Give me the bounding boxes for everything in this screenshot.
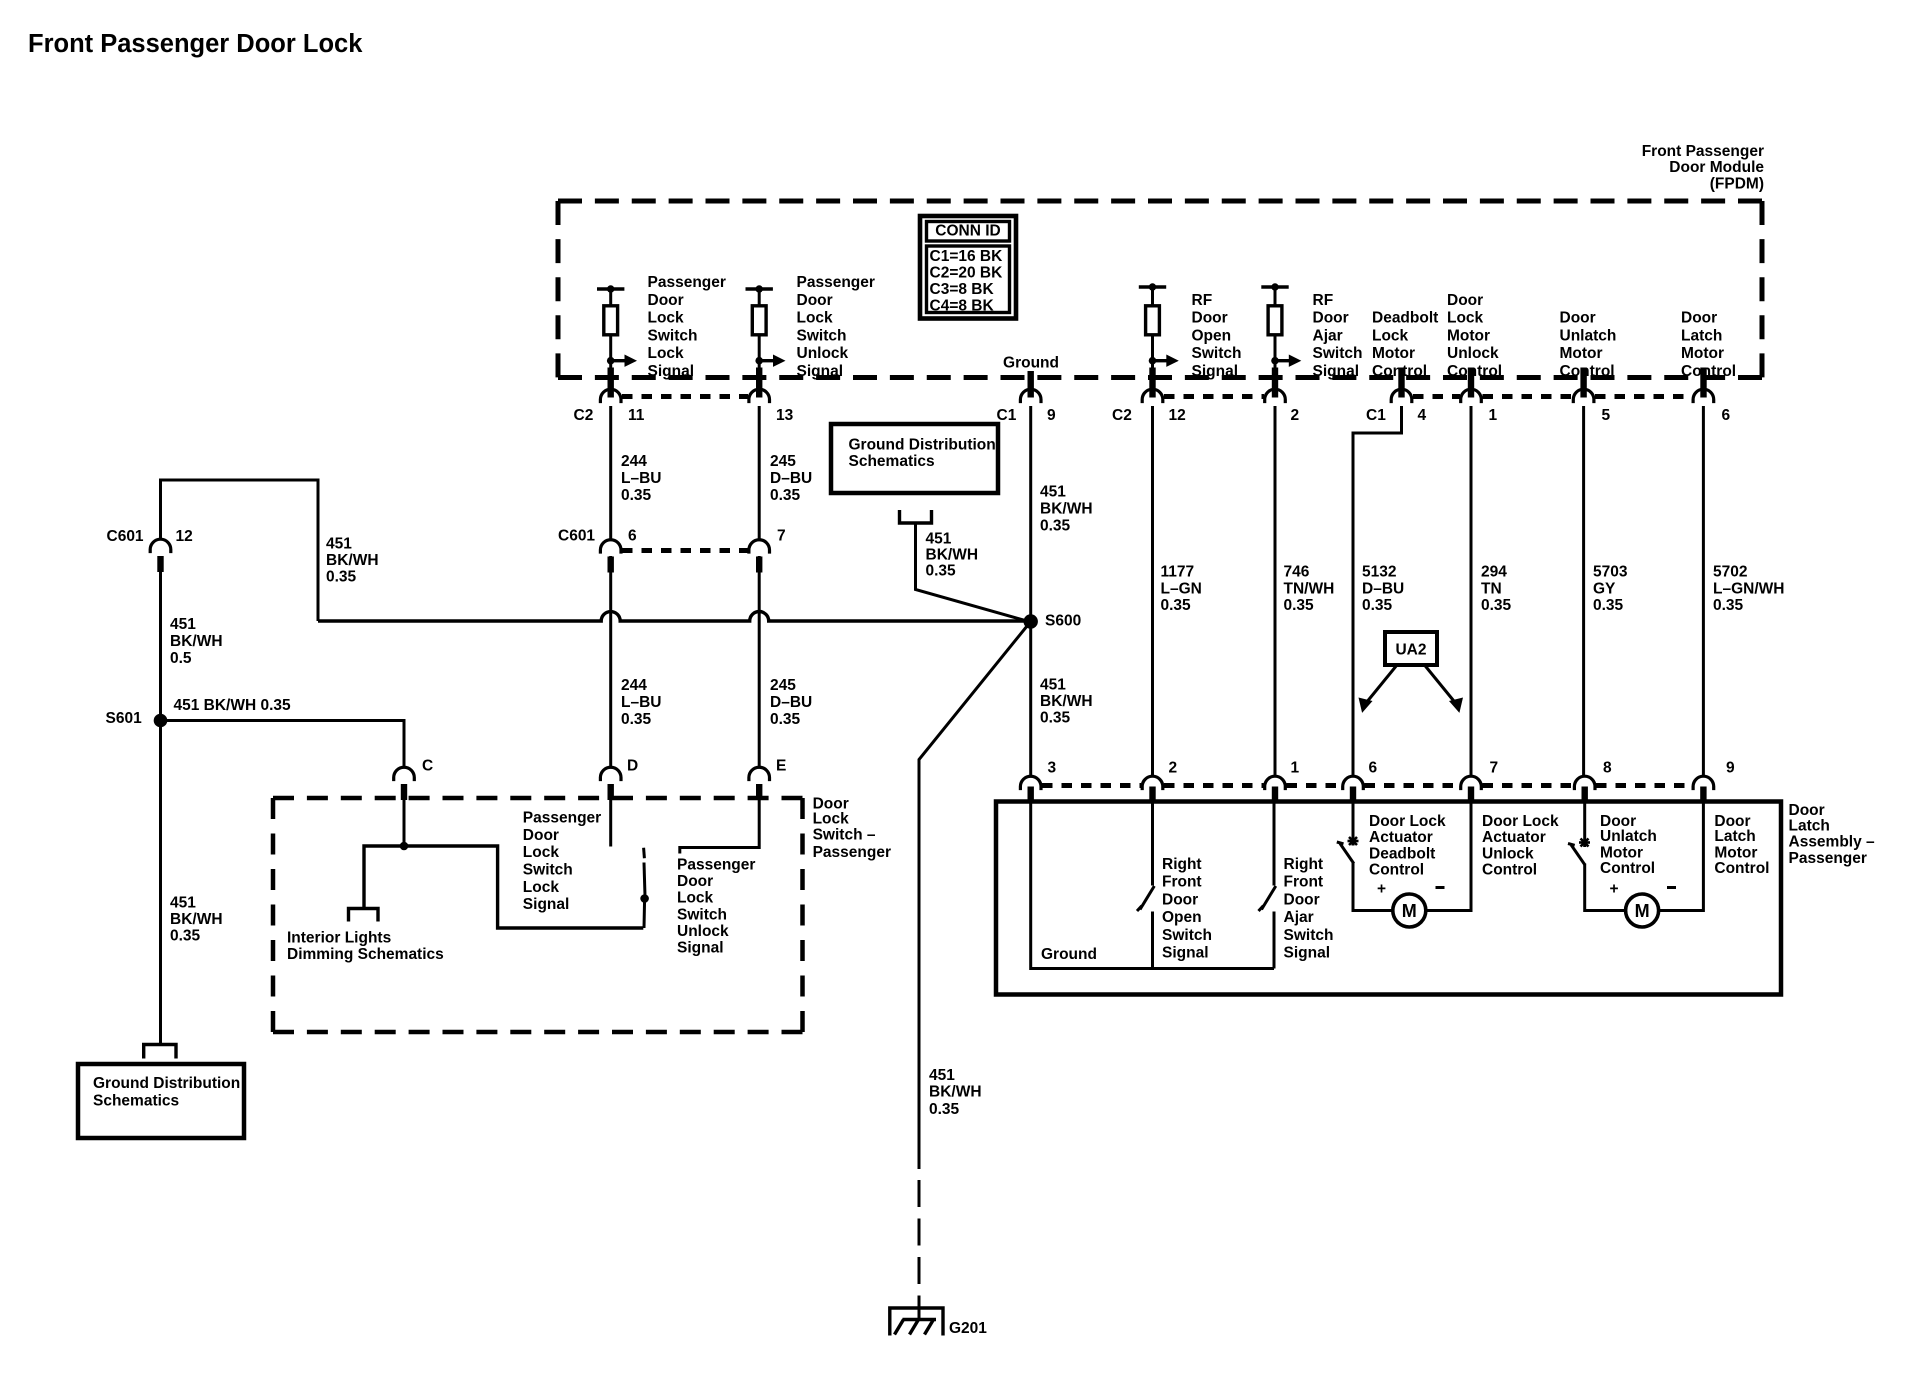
svg-text:Ground Distribution: Ground Distribution — [93, 1075, 240, 1092]
svg-text:D–BU: D–BU — [770, 470, 812, 487]
bracket to interior lights dimming — [349, 909, 379, 922]
label Ground (latch assembly) — [1041, 946, 1097, 963]
svg-text:Lock: Lock — [648, 345, 685, 362]
wire 5132 D-BU with jog — [1353, 406, 1402, 776]
wire 245 D-BU C601-7 to E — [758, 556, 761, 768]
connector C1 pin 5 (FPDM) — [1573, 368, 1610, 425]
label 451 BK/WH 0.35 (upper) — [1040, 483, 1093, 534]
svg-text:S600: S600 — [1045, 612, 1081, 629]
svg-text:0.35: 0.35 — [770, 487, 801, 504]
svg-text:Switch: Switch — [1162, 927, 1212, 944]
svg-text:5702: 5702 — [1713, 564, 1747, 581]
svg-text:L–BU: L–BU — [621, 470, 661, 487]
svg-text:Lock: Lock — [648, 310, 685, 327]
svg-text:Passenger: Passenger — [797, 274, 875, 291]
label: Door Latch Motor Control — [1681, 310, 1736, 380]
connector C1 pin 6 (FPDM) — [1693, 368, 1730, 425]
svg-text:Switch: Switch — [677, 906, 727, 923]
deadbolt actuator switch with asterisk — [1337, 803, 1359, 864]
motor M deadbolt — [1393, 894, 1426, 927]
svg-text:Signal: Signal — [797, 363, 844, 380]
svg-text:Ground: Ground — [1041, 946, 1097, 963]
label: Door Latch Motor Control — [1714, 813, 1769, 877]
unlatch motor switch with asterisk — [1568, 803, 1590, 865]
svg-text:7: 7 — [777, 528, 786, 545]
svg-text:4: 4 — [1418, 407, 1427, 424]
svg-text:Signal: Signal — [1192, 363, 1239, 380]
svg-text:C: C — [422, 758, 433, 775]
label 245 D-BU 0.35 (lower) — [770, 677, 812, 728]
label: Door Lock Actuator Unlock Control — [1482, 813, 1559, 878]
wire 451 BK/WH pin9 to S600 to pin3 — [1029, 406, 1032, 775]
svg-text:451 BK/WH 0.35: 451 BK/WH 0.35 — [174, 697, 292, 714]
svg-text:BK/WH: BK/WH — [929, 1084, 982, 1101]
connector pin 1 (latch assembly) — [1265, 760, 1300, 804]
svg-text:Actuator: Actuator — [1482, 829, 1546, 846]
svg-text:0.35: 0.35 — [326, 568, 357, 585]
svg-text:Door: Door — [1447, 292, 1483, 309]
svg-text:Signal: Signal — [1313, 363, 1360, 380]
switch S-lock inside FPDM (resistor ladder symbol) — [597, 285, 637, 370]
svg-text:Signal: Signal — [523, 896, 570, 913]
svg-text:451: 451 — [929, 1067, 955, 1084]
svg-text:Motor: Motor — [1447, 327, 1490, 344]
svg-text:0.35: 0.35 — [1362, 597, 1393, 614]
bracket to ground distribution box — [900, 510, 932, 523]
label 245 D-BU 0.35 (upper) — [770, 453, 812, 504]
svg-text:Unlock: Unlock — [1447, 345, 1499, 362]
svg-text:Unlatch: Unlatch — [1560, 327, 1617, 344]
svg-text:451: 451 — [1040, 676, 1066, 693]
svg-text:Door: Door — [1284, 891, 1320, 908]
svg-text:12: 12 — [1169, 407, 1186, 424]
svg-text:L–GN: L–GN — [1161, 580, 1202, 597]
svg-text:11: 11 — [628, 407, 645, 424]
svg-text:Passenger: Passenger — [677, 857, 755, 874]
label 5132 D-BU 0.35 — [1362, 564, 1404, 614]
svg-text:Lock: Lock — [1372, 327, 1409, 344]
svg-text:245: 245 — [770, 453, 796, 470]
motor M unlatch — [1626, 894, 1659, 927]
connector pin 6 (latch assembly) — [1343, 760, 1378, 804]
switch RF door open inside FPDM — [1139, 283, 1179, 370]
svg-text:C3=8 BK: C3=8 BK — [930, 281, 995, 298]
label 451 BK/WH 0.35 (lower left) — [170, 894, 223, 944]
splice S600 — [1023, 612, 1081, 629]
dotted connector line 4-1-5-6 — [1413, 394, 1693, 399]
svg-text:Schematics: Schematics — [93, 1092, 179, 1109]
svg-text:Passenger: Passenger — [1789, 850, 1867, 867]
svg-text:Motor: Motor — [1681, 345, 1724, 362]
svg-text:+: + — [1609, 881, 1618, 898]
switch right front door open — [1137, 803, 1154, 969]
label: RF Door Ajar Switch Signal — [1313, 292, 1363, 380]
connector pin 3 (latch assembly) — [1020, 760, 1056, 804]
svg-text:0.35: 0.35 — [1284, 597, 1315, 614]
svg-text:Unlock: Unlock — [797, 345, 849, 362]
label 5703 GY 0.35 — [1593, 564, 1628, 614]
label 451 BK/WH 0.35 (branch) — [174, 697, 292, 714]
svg-text:294: 294 — [1481, 564, 1507, 581]
svg-text:451: 451 — [1040, 483, 1066, 500]
label 5702 L-GN/WH 0.35 — [1713, 564, 1784, 614]
label: Interior Lights Dimming Schematics — [287, 929, 444, 963]
svg-text:Signal: Signal — [648, 363, 695, 380]
UA2 callout box with arrows — [1359, 632, 1464, 713]
label 451 BK/WH 0.35 (G201 drop) — [929, 1067, 982, 1118]
svg-text:Motor: Motor — [1560, 345, 1603, 362]
svg-text:Front Passenger: Front Passenger — [1642, 143, 1764, 160]
label: Passenger Door Lock Switch Unlock Signal — [797, 274, 875, 380]
switch RF door ajar inside FPDM — [1261, 283, 1301, 370]
svg-text:BK/WH: BK/WH — [926, 547, 979, 564]
svg-text:Deadbolt: Deadbolt — [1372, 310, 1438, 327]
svg-text:C1: C1 — [997, 407, 1017, 424]
connector C2 pin 13 (FPDM) — [749, 368, 794, 425]
svg-text:Lock: Lock — [677, 890, 714, 907]
svg-text:0.5: 0.5 — [170, 650, 192, 667]
bracket to ground distribution box (bottom left) — [144, 1045, 176, 1059]
svg-text:Switch: Switch — [1192, 345, 1242, 362]
switch blade D (open) — [640, 848, 649, 928]
connector pin 7 (latch assembly) — [1461, 760, 1498, 804]
wire 1177 L-GN — [1151, 406, 1154, 776]
svg-text:M: M — [1635, 901, 1650, 921]
svg-text:0.35: 0.35 — [1161, 597, 1192, 614]
svg-text:6: 6 — [1369, 760, 1378, 777]
connector pin 2 (latch assembly) — [1142, 760, 1177, 804]
svg-text:Lock: Lock — [523, 844, 560, 861]
connector C1 pin 9 (FPDM) — [997, 371, 1057, 424]
dotted connector line 12-2 — [1164, 394, 1264, 399]
svg-text:Front: Front — [1162, 874, 1202, 891]
svg-text:6: 6 — [1722, 407, 1731, 424]
label: Deadbolt Lock Motor Control — [1372, 310, 1438, 380]
svg-text:Door: Door — [1192, 310, 1228, 327]
svg-text:Switch: Switch — [1313, 345, 1363, 362]
svg-text:BK/WH: BK/WH — [170, 911, 223, 928]
svg-text:Right: Right — [1162, 856, 1202, 873]
svg-text:Latch: Latch — [1789, 817, 1830, 834]
long horizontal wire to S600 with hops — [318, 612, 1026, 622]
deadbolt motor loop wiring — [1353, 803, 1471, 911]
svg-text:Open: Open — [1192, 327, 1232, 344]
svg-text:0.35: 0.35 — [170, 927, 201, 944]
svg-text:Control: Control — [1482, 861, 1537, 878]
svg-text:Passenger: Passenger — [813, 844, 891, 861]
svg-text:451: 451 — [926, 530, 952, 547]
svg-text:Schematics: Schematics — [849, 453, 935, 470]
svg-text:CONN ID: CONN ID — [935, 222, 1000, 239]
ground rail inside latch assembly — [1031, 803, 1274, 969]
svg-text:7: 7 — [1490, 760, 1499, 777]
svg-text:0.35: 0.35 — [926, 563, 957, 580]
polarity marks unlatch motor — [1609, 881, 1676, 898]
svg-text:D–BU: D–BU — [1362, 580, 1404, 597]
svg-text:6: 6 — [628, 528, 637, 545]
svg-text:BK/WH: BK/WH — [1040, 500, 1093, 517]
svg-text:5: 5 — [1602, 407, 1611, 424]
svg-text:5703: 5703 — [1593, 564, 1628, 581]
svg-text:2: 2 — [1291, 407, 1300, 424]
wire from E down and over — [680, 784, 759, 854]
svg-text:D–BU: D–BU — [770, 694, 812, 711]
wire 451 BK/WH 0.5 down to S601 — [159, 556, 162, 1044]
label: RF Door Open Switch Signal — [1192, 292, 1242, 380]
wire from C into switch — [403, 784, 406, 846]
dotted connector line 11-13 — [622, 394, 748, 399]
svg-text:Door Module: Door Module — [1669, 159, 1764, 176]
svg-text:0.35: 0.35 — [1593, 597, 1624, 614]
switch right front door ajar — [1259, 803, 1276, 969]
svg-text:BK/WH: BK/WH — [170, 633, 223, 650]
svg-text:0.35: 0.35 — [1040, 709, 1071, 726]
label: Passenger Door Lock Switch Lock Signal (D) — [523, 810, 601, 914]
svg-text:Door: Door — [1560, 310, 1596, 327]
label 451 BK/WH 0.35 (top left) — [326, 535, 379, 585]
svg-text:Dimming Schematics: Dimming Schematics — [287, 946, 444, 963]
svg-text:Signal: Signal — [1284, 945, 1331, 962]
svg-text:Passenger: Passenger — [648, 274, 726, 291]
svg-text:GY: GY — [1593, 580, 1616, 597]
label 244 L-BU 0.35 (upper) — [621, 453, 661, 504]
svg-text:Door: Door — [1681, 310, 1717, 327]
ground distribution schematics box (bottom left) — [78, 1064, 244, 1138]
svg-text:C2: C2 — [1112, 407, 1132, 424]
svg-text:3: 3 — [1048, 760, 1057, 777]
svg-text:L–BU: L–BU — [621, 694, 661, 711]
svg-text:0.35: 0.35 — [1713, 597, 1744, 614]
label: Right Front Door Open Switch Signal — [1162, 856, 1212, 962]
label 294 TN 0.35 — [1481, 564, 1512, 614]
svg-text:1: 1 — [1489, 407, 1498, 424]
svg-text:Unlatch: Unlatch — [1600, 828, 1657, 845]
svg-text:S601: S601 — [106, 710, 143, 727]
svg-text:12: 12 — [176, 528, 193, 545]
connector C601 pin 12 — [107, 528, 193, 572]
connector C1 pin 1 (FPDM) — [1461, 368, 1498, 425]
switch S-unlock inside FPDM — [746, 285, 786, 370]
svg-text:Switch: Switch — [797, 327, 847, 344]
connector C601 pin 6 — [558, 528, 637, 573]
label: Ground (FPDM pin 9) — [1003, 355, 1059, 372]
svg-text:Front Passenger Door Lock: Front Passenger Door Lock — [28, 30, 363, 58]
polarity marks deadbolt motor — [1377, 881, 1445, 898]
svg-text:Door: Door — [797, 292, 833, 309]
ground distribution schematics box (top) — [831, 424, 998, 493]
svg-text:Switch: Switch — [648, 327, 698, 344]
svg-text:244: 244 — [621, 453, 647, 470]
wire 451 from bracket to S600 — [916, 523, 1028, 621]
svg-text:Deadbolt: Deadbolt — [1369, 845, 1435, 862]
svg-text:Ground: Ground — [1003, 355, 1059, 372]
svg-text:RF: RF — [1192, 292, 1213, 309]
label 451 BK/WH 0.35 (bracket wire) — [926, 530, 979, 579]
label: Right Front Door Ajar Switch Signal — [1284, 856, 1334, 962]
connector pin E (door lock switch) — [749, 758, 786, 801]
svg-text:G201: G201 — [949, 1320, 987, 1337]
connector C2 pin 12 (FPDM) — [1112, 368, 1186, 425]
svg-text:Switch –: Switch – — [813, 826, 876, 843]
wire common rail of lock switch — [362, 844, 643, 928]
svg-text:Switch: Switch — [1284, 927, 1334, 944]
svg-text:5132: 5132 — [1362, 564, 1396, 581]
connector C601 pin 7 — [749, 528, 786, 573]
connector pin 9 (latch assembly) — [1693, 760, 1735, 804]
svg-text:L–GN/WH: L–GN/WH — [1713, 580, 1784, 597]
diagram title — [28, 30, 363, 58]
svg-text:746: 746 — [1284, 564, 1310, 581]
dotted connector line 6-7 — [622, 548, 748, 553]
wire 746 TN/WH — [1274, 406, 1277, 776]
svg-text:0.35: 0.35 — [1481, 597, 1512, 614]
svg-text:RF: RF — [1313, 292, 1334, 309]
connector C2 pin 11 (FPDM) — [574, 368, 645, 425]
svg-text:Signal: Signal — [677, 940, 724, 957]
label: Door Latch Assembly - Passenger — [1789, 802, 1876, 867]
wire 244 L-BU pin11 to C601-6 — [609, 406, 612, 540]
svg-text:Interior Lights: Interior Lights — [287, 929, 391, 946]
svg-text:Motor: Motor — [1372, 345, 1415, 362]
wire 245 D-BU pin13 to C601-7 — [758, 406, 761, 540]
svg-text:(FPDM): (FPDM) — [1710, 176, 1764, 193]
wire 5702 L-GN/WH — [1702, 406, 1705, 776]
svg-text:0.35: 0.35 — [929, 1101, 960, 1118]
wire diagonal S600 to G201 drop — [919, 622, 1031, 1170]
svg-text:2: 2 — [1169, 760, 1178, 777]
svg-text:Right: Right — [1284, 856, 1324, 873]
svg-text:C2: C2 — [574, 407, 594, 424]
ground G201 symbol — [890, 1308, 987, 1337]
dashed wire segment to G201 — [918, 1180, 921, 1318]
splice S601 — [106, 710, 168, 727]
svg-text:Switch: Switch — [523, 862, 573, 879]
svg-text:Open: Open — [1162, 909, 1202, 926]
svg-text:Door: Door — [523, 827, 559, 844]
svg-text:C1: C1 — [1366, 407, 1386, 424]
wire 294 TN — [1470, 406, 1473, 776]
svg-text:Control: Control — [1369, 861, 1424, 878]
label: Door Lock Switch - Passenger — [813, 796, 891, 861]
svg-text:Signal: Signal — [1162, 945, 1209, 962]
svg-text:Door: Door — [677, 873, 713, 890]
svg-text:Actuator: Actuator — [1369, 829, 1433, 846]
svg-text:1: 1 — [1291, 760, 1300, 777]
svg-text:Door: Door — [1313, 310, 1349, 327]
connector C1 pin 4 (FPDM) — [1366, 368, 1427, 425]
svg-text:Control: Control — [1447, 363, 1502, 380]
svg-text:13: 13 — [776, 407, 794, 424]
svg-text:Passenger: Passenger — [523, 810, 601, 827]
label: Door Unlatch Motor Control — [1560, 310, 1617, 380]
svg-text:9: 9 — [1726, 760, 1735, 777]
svg-text:8: 8 — [1603, 760, 1612, 777]
label 1177 L-GN 0.35 — [1161, 564, 1202, 614]
wire 5703 GY — [1582, 406, 1585, 776]
svg-text:BK/WH: BK/WH — [326, 552, 379, 569]
label 746 TN/WH 0.35 — [1284, 564, 1335, 614]
svg-text:Door Lock: Door Lock — [1482, 813, 1559, 830]
svg-text:C1=16 BK: C1=16 BK — [930, 248, 1004, 265]
svg-text:Latch: Latch — [1714, 828, 1755, 845]
svg-text:Door Lock: Door Lock — [1369, 813, 1446, 830]
label: Door Unlatch Motor Control — [1600, 813, 1657, 877]
svg-text:244: 244 — [621, 677, 647, 694]
svg-text:0.35: 0.35 — [1040, 517, 1071, 534]
svg-text:C2=20 BK: C2=20 BK — [930, 265, 1004, 282]
wire from D down — [609, 784, 612, 847]
svg-text:Control: Control — [1714, 860, 1769, 877]
label: Passenger Door Lock Switch Lock Signal — [648, 274, 726, 380]
svg-text:BK/WH: BK/WH — [1040, 693, 1093, 710]
svg-text:0.35: 0.35 — [621, 487, 652, 504]
svg-text:+: + — [1377, 881, 1386, 898]
svg-text:Unlock: Unlock — [677, 923, 729, 940]
door lock switch passenger dashed box — [273, 798, 803, 1032]
svg-text:D: D — [627, 758, 638, 775]
svg-text:M: M — [1402, 901, 1417, 921]
svg-text:Assembly –: Assembly – — [1789, 834, 1876, 851]
svg-text:Latch: Latch — [1681, 327, 1722, 344]
connector pin 8 (latch assembly) — [1574, 760, 1612, 804]
svg-text:Door: Door — [648, 292, 684, 309]
svg-text:Lock: Lock — [797, 310, 834, 327]
svg-text:TN: TN — [1481, 580, 1502, 597]
svg-text:Ground Distribution: Ground Distribution — [849, 437, 996, 454]
FPDM module label — [1642, 143, 1765, 193]
svg-text:Front: Front — [1284, 874, 1324, 891]
svg-text:Lock: Lock — [813, 811, 850, 828]
svg-text:Control: Control — [1600, 860, 1655, 877]
svg-text:0.35: 0.35 — [770, 711, 801, 728]
wire 451 BK/WH C601-12 loop to long run — [161, 480, 319, 621]
svg-text:0.35: 0.35 — [621, 711, 652, 728]
label: Door Lock Actuator Deadbolt Control — [1369, 813, 1446, 878]
wire S601 branch to connector C — [161, 721, 405, 769]
svg-text:Ajar: Ajar — [1284, 909, 1314, 926]
dotted connector line 3-2-1-6-7-8-9 — [1042, 783, 1693, 788]
label 451 BK/WH 0.35 (below S600) — [1040, 676, 1093, 726]
label 244 L-BU 0.35 (lower) — [621, 677, 661, 728]
svg-text:9: 9 — [1047, 407, 1056, 424]
svg-text:Unlock: Unlock — [1482, 845, 1534, 862]
junction node on C wire — [400, 842, 409, 851]
svg-text:Lock: Lock — [523, 879, 560, 896]
wire 244 L-BU C601-6 to D — [609, 556, 612, 768]
unlatch motor loop wiring — [1585, 803, 1704, 911]
svg-text:C601: C601 — [558, 528, 595, 545]
svg-text:UA2: UA2 — [1395, 642, 1426, 659]
label 451 BK/WH 0.5 — [170, 616, 223, 667]
connector pin C (door lock switch) — [394, 758, 434, 801]
svg-text:451: 451 — [170, 616, 196, 633]
connector C2 pin 2 (FPDM) — [1265, 368, 1299, 425]
label: Door Lock Motor Unlock Control — [1447, 292, 1502, 380]
svg-text:451: 451 — [170, 894, 196, 911]
svg-text:Lock: Lock — [1447, 310, 1484, 327]
svg-text:245: 245 — [770, 677, 796, 694]
connector pin D (door lock switch) — [600, 758, 638, 801]
svg-text:E: E — [776, 758, 786, 775]
FPDM module dashed box — [558, 201, 1762, 378]
svg-text:Door: Door — [1162, 891, 1198, 908]
svg-text:Control: Control — [1560, 363, 1615, 380]
svg-text:Control: Control — [1681, 363, 1736, 380]
svg-text:Ajar: Ajar — [1313, 327, 1343, 344]
svg-text:TN/WH: TN/WH — [1284, 580, 1335, 597]
door latch assembly passenger box — [996, 802, 1781, 995]
label: Passenger Door Lock Switch Unlock Signal (E) — [677, 857, 755, 957]
